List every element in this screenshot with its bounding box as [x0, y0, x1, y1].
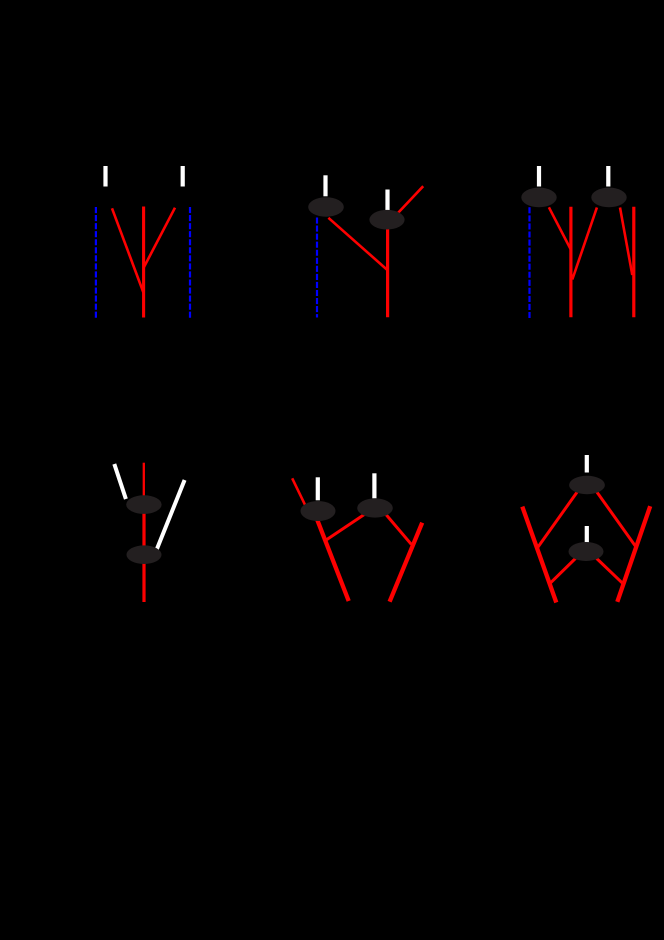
panel F: red branch lower ellipse to right — [592, 554, 623, 583]
panel D: ellipse lower — [127, 545, 162, 564]
panel D: white diagonal bar right — [157, 480, 185, 550]
panel E: red long right diagonal — [390, 523, 423, 602]
panel E: red top-left diagonal lineage — [292, 478, 305, 506]
panel A: blue dashed boundary left — [95, 207, 97, 318]
panel F: white bar upper — [585, 455, 589, 473]
panel B: blue dashed boundary — [316, 218, 318, 318]
panel E: red branch from right ellipse to right — [383, 511, 411, 544]
panel C: ellipse right — [591, 188, 626, 208]
panel A: blue dashed boundary right — [189, 207, 191, 318]
panel F: red branch upper ellipse to right — [594, 488, 636, 547]
panel E: white bar left — [316, 477, 320, 500]
panel B: white bar left — [323, 175, 327, 196]
panel C: blue dashed boundary — [528, 207, 530, 318]
panel D: ellipse upper — [126, 495, 161, 514]
panel A: red left diagonal lineage — [112, 208, 144, 293]
panel A: red central lineage — [142, 207, 145, 318]
panel D: red vertical lineage — [143, 463, 145, 505]
panel B: red vertical lineage — [386, 220, 389, 318]
panel E: ellipse right — [357, 498, 393, 517]
panel E: white bar right — [372, 473, 376, 498]
panel B: red middle diagonal lineage — [328, 218, 386, 270]
panel B: white bar right — [385, 190, 389, 211]
panel C: white bar right — [606, 166, 610, 187]
panel E: ellipse left — [301, 501, 336, 521]
panel E: red long left diagonal — [317, 520, 348, 601]
panel B: ellipse right — [369, 210, 404, 230]
panel C: white bar left — [537, 166, 541, 187]
panel C: ellipse left — [521, 188, 556, 208]
panel C: red short diagonal from right ellipse — [620, 208, 632, 276]
panel F: red branch upper ellipse to left — [537, 488, 580, 548]
panel C: red vertical lineage 2 — [632, 207, 635, 317]
panel F: ellipse lower — [569, 542, 604, 561]
panel A: red right diagonal lineage — [144, 208, 175, 267]
panel F: red long left diagonal — [522, 507, 556, 603]
panel A: white bar left — [103, 166, 107, 187]
panel C: red diagonal from left ellipse — [549, 207, 571, 249]
panel B: red top-right diagonal lineage — [397, 186, 423, 214]
panel F: red branch lower ellipse to left — [550, 554, 580, 583]
panel F: ellipse upper — [569, 476, 605, 494]
panel F: red long right diagonal — [617, 506, 650, 602]
panel A: white bar right — [181, 166, 185, 187]
panel B: ellipse left — [308, 197, 344, 216]
panel C: red vertical lineage 1 — [569, 207, 572, 317]
panel D: red vertical lineage lower — [142, 503, 145, 602]
panel C: red long diagonal from right ellipse — [572, 208, 597, 280]
panel D: white diagonal bar upper-left — [114, 464, 126, 499]
panel F: white bar lower — [585, 526, 589, 543]
panel E: red branch from right ellipse to left — [327, 512, 369, 540]
